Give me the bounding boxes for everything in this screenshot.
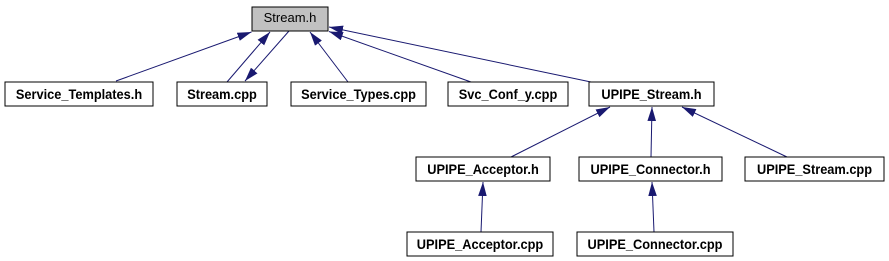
node UPIPE_Acceptor.cpp: [407, 232, 553, 256]
node Service_Templates.h: [5, 82, 153, 106]
node UPIPE_Stream.cpp: [745, 157, 884, 181]
node UPIPE_Acceptor.h: [416, 157, 550, 181]
wire UPIPE_Stream.cpp -> UPIPE_Stream.h: [682, 107, 787, 157]
node Service_Types.cpp: [291, 82, 426, 106]
svg-text:Stream.cpp: Stream.cpp: [187, 86, 257, 102]
wire UPIPE_Connector.h -> UPIPE_Stream.h: [651, 107, 652, 157]
node Stream.cpp: [177, 82, 267, 106]
node UPIPE_Stream.h: [589, 82, 714, 106]
svg-text:UPIPE_Acceptor.cpp: UPIPE_Acceptor.cpp: [417, 236, 543, 252]
svg-text:UPIPE_Stream.cpp: UPIPE_Stream.cpp: [757, 161, 872, 177]
wire Svc_Conf_y.cpp -> Stream.h: [329, 32, 471, 83]
wire UPIPE_Acceptor.cpp -> UPIPE_Acceptor.h: [481, 182, 483, 232]
svg-text:Svc_Conf_y.cpp: Svc_Conf_y.cpp: [459, 86, 558, 102]
wire UPIPE_Connector.cpp -> UPIPE_Connector.h: [652, 182, 654, 232]
svg-text:Service_Types.cpp: Service_Types.cpp: [301, 86, 416, 102]
wire Service_Types.cpp -> Stream.h: [310, 32, 348, 82]
node Svc_Conf_y.cpp: [448, 82, 568, 106]
svg-text:Service_Templates.h: Service_Templates.h: [16, 86, 142, 102]
svg-text:UPIPE_Acceptor.h: UPIPE_Acceptor.h: [427, 161, 539, 177]
wire UPIPE_Stream.h -> Stream.h: [329, 27, 591, 82]
svg-text:Stream.h: Stream.h: [264, 10, 317, 25]
node UPIPE_Connector.cpp: [577, 232, 733, 256]
wire Service_Templates.h -> Stream.h: [116, 32, 252, 81]
wire UPIPE_Acceptor.h -> UPIPE_Stream.h: [511, 107, 610, 157]
svg-text:UPIPE_Connector.cpp: UPIPE_Connector.cpp: [588, 236, 723, 252]
wire Stream.h -> Stream.cpp: [245, 31, 289, 81]
wire Stream.cpp -> Stream.h: [227, 32, 270, 82]
node Stream.h: [252, 7, 328, 31]
node UPIPE_Connector.h: [579, 157, 722, 181]
svg-text:UPIPE_Connector.h: UPIPE_Connector.h: [590, 161, 710, 177]
svg-text:UPIPE_Stream.h: UPIPE_Stream.h: [601, 86, 701, 102]
